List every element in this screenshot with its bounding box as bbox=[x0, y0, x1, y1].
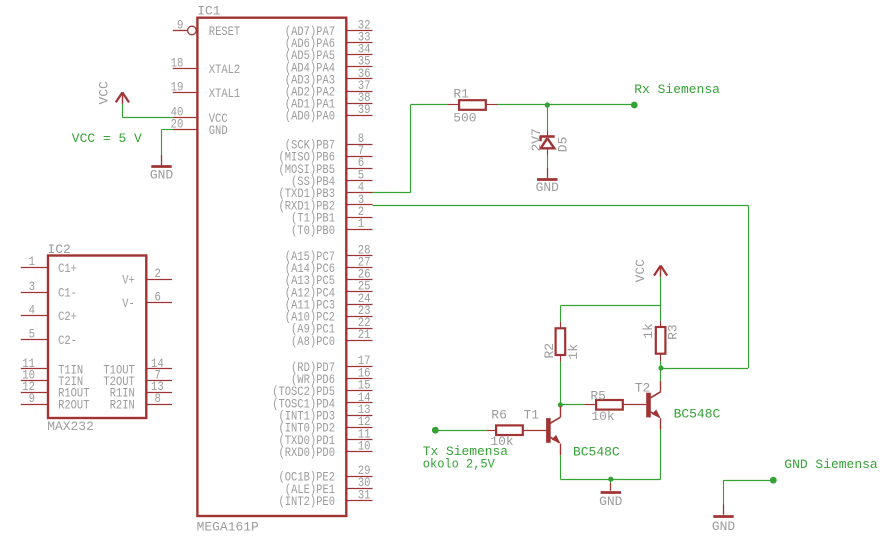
svg-text:1: 1 bbox=[358, 216, 364, 231]
svg-text:500: 500 bbox=[453, 111, 476, 126]
svg-text:C1+: C1+ bbox=[58, 261, 77, 276]
svg-text:XTAL1: XTAL1 bbox=[209, 86, 240, 101]
svg-text:GND: GND bbox=[209, 123, 228, 138]
svg-text:MEGA161P: MEGA161P bbox=[197, 519, 259, 534]
svg-text:VCC = 5 V: VCC = 5 V bbox=[72, 131, 142, 146]
svg-text:BC548C: BC548C bbox=[674, 407, 721, 422]
svg-text:GND: GND bbox=[536, 180, 559, 195]
svg-text:R5: R5 bbox=[590, 388, 606, 403]
svg-text:GND: GND bbox=[150, 168, 173, 183]
svg-text:18: 18 bbox=[171, 56, 184, 71]
svg-text:9: 9 bbox=[29, 391, 35, 406]
svg-text:21: 21 bbox=[358, 327, 371, 342]
svg-text:C1-: C1- bbox=[58, 285, 77, 300]
svg-text:T1: T1 bbox=[524, 407, 540, 422]
svg-text:Rx Siemensa: Rx Siemensa bbox=[634, 82, 720, 97]
svg-text:C2+: C2+ bbox=[58, 309, 77, 324]
svg-text:5: 5 bbox=[29, 327, 35, 342]
svg-text:R2: R2 bbox=[542, 343, 557, 359]
svg-text:10: 10 bbox=[358, 439, 371, 454]
svg-text:R1: R1 bbox=[453, 86, 469, 101]
svg-text:(RXD0)PD0: (RXD0)PD0 bbox=[279, 445, 336, 460]
svg-text:VCC: VCC bbox=[96, 81, 111, 104]
svg-text:C2-: C2- bbox=[58, 333, 77, 348]
svg-text:R3: R3 bbox=[666, 324, 681, 340]
svg-text:D5: D5 bbox=[556, 137, 571, 153]
svg-text:GND: GND bbox=[599, 494, 622, 509]
svg-text:GND Siemensa: GND Siemensa bbox=[784, 457, 877, 472]
svg-text:1: 1 bbox=[29, 254, 35, 269]
svg-text:(A8)PC0: (A8)PC0 bbox=[291, 334, 335, 349]
svg-text:(T0)PB0: (T0)PB0 bbox=[291, 223, 335, 238]
svg-text:V-: V- bbox=[122, 296, 135, 311]
svg-text:R6: R6 bbox=[491, 408, 507, 423]
svg-text:BC548C: BC548C bbox=[573, 444, 620, 459]
svg-text:RESET: RESET bbox=[209, 24, 240, 39]
svg-text:IC1: IC1 bbox=[197, 4, 220, 19]
svg-text:IC2: IC2 bbox=[48, 242, 71, 257]
svg-text:19: 19 bbox=[171, 80, 184, 95]
svg-text:R2OUT: R2OUT bbox=[58, 397, 89, 412]
svg-text:GND: GND bbox=[712, 519, 735, 534]
svg-text:2: 2 bbox=[155, 266, 161, 281]
svg-text:XTAL2: XTAL2 bbox=[209, 62, 240, 77]
svg-text:VCC: VCC bbox=[633, 259, 648, 282]
svg-text:V+: V+ bbox=[122, 273, 135, 288]
svg-text:9: 9 bbox=[177, 17, 183, 32]
svg-text:10k: 10k bbox=[591, 409, 614, 424]
svg-text:6: 6 bbox=[155, 290, 161, 305]
svg-text:8: 8 bbox=[155, 391, 161, 406]
svg-text:(INT2)PE0: (INT2)PE0 bbox=[279, 494, 336, 509]
svg-text:3: 3 bbox=[29, 279, 35, 294]
svg-text:4: 4 bbox=[29, 303, 35, 318]
svg-text:(AD0)PA0: (AD0)PA0 bbox=[285, 109, 335, 124]
svg-text:T2: T2 bbox=[635, 381, 651, 396]
svg-text:2V7: 2V7 bbox=[529, 128, 544, 151]
svg-text:R2IN: R2IN bbox=[110, 397, 135, 412]
svg-text:31: 31 bbox=[358, 488, 371, 503]
svg-text:39: 39 bbox=[358, 102, 371, 117]
svg-text:okolo 2,5V: okolo 2,5V bbox=[423, 457, 495, 472]
svg-text:1k: 1k bbox=[566, 344, 581, 360]
svg-text:MAX232: MAX232 bbox=[47, 419, 94, 434]
svg-text:1k: 1k bbox=[641, 323, 656, 339]
